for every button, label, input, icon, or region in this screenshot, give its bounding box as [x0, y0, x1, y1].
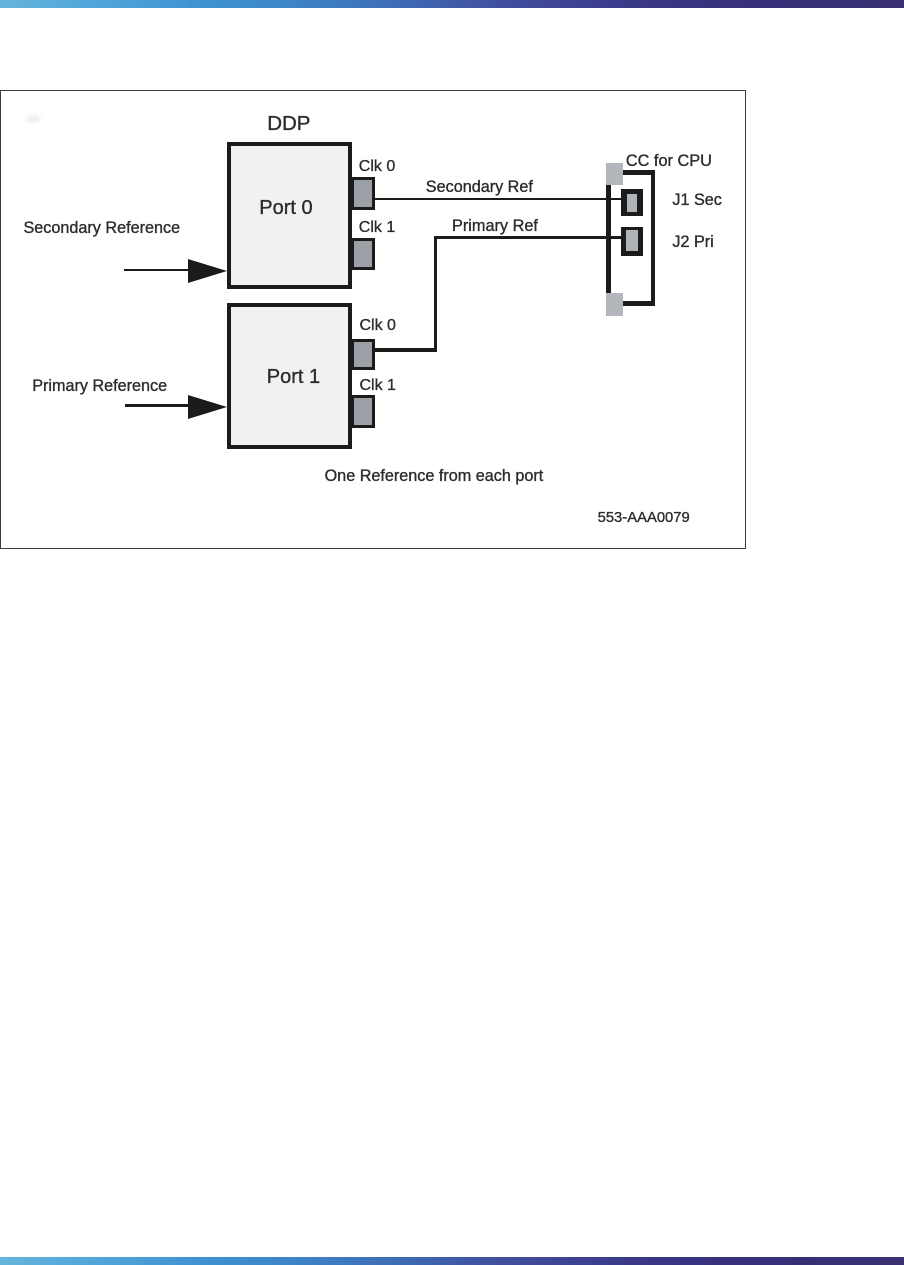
- arrowhead Secondary Reference input: [188, 259, 227, 283]
- figure frame: [0, 90, 746, 549]
- wire Secondary Ref (Port0 Clk0 to J1): [374, 198, 621, 200]
- label CC for CPU: [626, 153, 712, 169]
- pin Clk 1 of Port 0: [351, 238, 375, 270]
- label Port 0: [259, 198, 312, 218]
- arrow line Secondary Reference input: [124, 269, 188, 271]
- connector CC for CPU : left bus line: [606, 183, 611, 295]
- label Clk 1 (Port 1): [360, 378, 396, 394]
- wire Primary Ref vertical segment: [434, 236, 438, 352]
- arrow line Primary Reference input: [125, 404, 189, 406]
- jack J2: [621, 227, 643, 256]
- wire Port1 Clk0 horizontal segment: [374, 348, 437, 351]
- connector CC for CPU : top gray pad: [606, 163, 623, 185]
- label J1 Sec: [672, 192, 722, 208]
- jack J1: [621, 189, 643, 216]
- figure number 553-AAA0079: [598, 511, 690, 526]
- bottom gradient banner: [0, 1257, 904, 1265]
- wire Primary Ref horizontal (to J2): [434, 236, 622, 239]
- pin Clk 0 of Port 1: [351, 339, 375, 371]
- port block Port 1: [227, 303, 352, 449]
- label Secondary Ref: [426, 179, 533, 195]
- pin Clk 0 of Port 0: [351, 177, 375, 210]
- label Port 1: [267, 367, 320, 387]
- label Clk 0 (Port 0): [359, 159, 395, 175]
- port block Port 0: [227, 142, 352, 289]
- top gradient banner: [0, 0, 904, 8]
- label J2 Pri: [672, 234, 713, 250]
- label Primary Reference: [32, 378, 167, 394]
- arrowhead Primary Reference input: [188, 395, 227, 419]
- label DDP: [267, 114, 310, 135]
- label Primary Ref: [452, 218, 538, 234]
- faint smudge artifact: [25, 115, 41, 123]
- caption One Reference from each port: [325, 468, 544, 484]
- label Secondary Reference: [24, 220, 181, 236]
- connector CC for CPU : outline bottom: [614, 301, 655, 306]
- label Clk 1 (Port 0): [359, 220, 395, 236]
- label Clk 0 (Port 1): [360, 318, 396, 334]
- pin Clk 1 of Port 1: [351, 395, 375, 428]
- connector CC for CPU : outline right: [651, 170, 655, 306]
- connector CC for CPU : outline top: [614, 170, 655, 175]
- connector CC for CPU : bottom gray pad: [606, 293, 623, 316]
